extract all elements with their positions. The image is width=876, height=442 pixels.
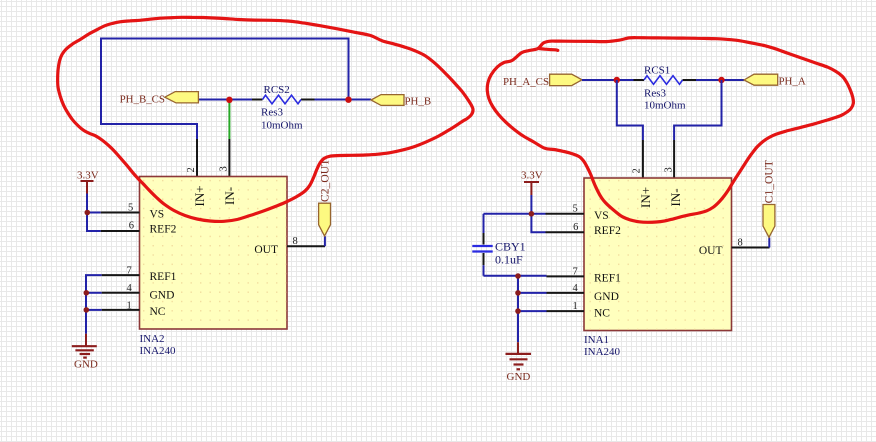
pin 7 (REF1) (547, 267, 585, 278)
wire junction to resistor lead (229, 99, 252, 101)
pin 5 (VS) (101, 202, 140, 213)
svg-text:7: 7 (127, 266, 132, 277)
svg-text:PH_B_CS: PH_B_CS (120, 93, 165, 105)
svg-text:3: 3 (664, 167, 675, 172)
port C2_OUT (318, 159, 331, 236)
annotation red loop left (58, 17, 473, 221)
resistor RCS2 (252, 84, 315, 132)
junction (right sense node) (345, 97, 351, 103)
junction (left sense node) (226, 97, 232, 103)
svg-text:1: 1 (127, 300, 132, 311)
svg-text:IN-: IN- (222, 187, 237, 205)
wire green net segment to IN- (228, 100, 230, 139)
junction gnd rail (515, 290, 521, 296)
junction gnd rail (515, 308, 521, 314)
svg-text:8: 8 (738, 237, 743, 248)
port PH_B_CS (120, 92, 199, 106)
wire right junction to PH_B port (349, 99, 372, 101)
svg-text:5: 5 (128, 202, 133, 213)
pin 5 (VS) (546, 204, 585, 215)
svg-text:3.3V: 3.3V (77, 170, 99, 182)
svg-text:Res3: Res3 (644, 88, 667, 100)
pin 1 (NC) (102, 300, 140, 311)
port C1_OUT (763, 160, 776, 237)
pin 6 (REF2) (546, 222, 585, 233)
svg-text:5: 5 (572, 204, 577, 215)
svg-text:REF1: REF1 (594, 273, 621, 285)
power 3.3V right (521, 170, 543, 195)
svg-text:VS: VS (594, 210, 609, 222)
svg-text:IN-: IN- (668, 188, 683, 206)
junction (right sense node) (718, 77, 724, 83)
pin 8 (OUT) (732, 237, 770, 248)
junction VS rail (529, 211, 535, 217)
port PH_A_CS (503, 74, 582, 88)
wire PH_A_CS to junction (582, 79, 617, 81)
svg-text:7: 7 (572, 267, 577, 278)
wire OUT to port (768, 238, 770, 248)
wire IN- drop (674, 80, 721, 140)
junction VS rail (85, 210, 91, 216)
svg-text:4: 4 (572, 283, 578, 294)
junction gnd rail (84, 290, 90, 296)
ground GND left (72, 334, 98, 371)
svg-text:REF1: REF1 (150, 271, 177, 283)
svg-text:8: 8 (293, 236, 298, 247)
svg-text:NC: NC (150, 306, 166, 318)
pin 1 (NC) (547, 301, 585, 312)
pin 6 (REF2) (101, 221, 140, 232)
svg-text:INA240: INA240 (584, 346, 621, 358)
wire IN+ drop (617, 80, 643, 140)
pin 7 (REF1) (102, 266, 140, 277)
svg-text:INA240: INA240 (140, 345, 177, 357)
svg-text:2: 2 (632, 168, 643, 173)
pin 2 (IN+) (632, 140, 643, 178)
junction gnd rail (515, 273, 521, 279)
svg-text:RCS1: RCS1 (644, 64, 670, 76)
IC INA1 body (584, 178, 732, 331)
svg-text:PH_A: PH_A (779, 76, 806, 88)
svg-text:3.3V: 3.3V (521, 170, 543, 182)
wire 3.3V to VS/REF2 (87, 194, 101, 232)
svg-text:OUT: OUT (254, 244, 278, 256)
port PH_B (371, 95, 431, 108)
junction (left sense node) (614, 77, 620, 83)
svg-text:Res3: Res3 (261, 106, 284, 118)
svg-text:PH_B: PH_B (405, 96, 432, 108)
wire resistor to right junction (696, 79, 722, 81)
svg-text:INA1: INA1 (584, 334, 609, 346)
svg-text:VS: VS (150, 209, 165, 221)
svg-text:NC: NC (594, 307, 610, 319)
wire right junction to PH_A (722, 79, 745, 81)
svg-text:3: 3 (219, 166, 230, 171)
wire gnd rail left (86, 275, 102, 334)
wire OUT to port (324, 236, 326, 246)
svg-text:0.1uF: 0.1uF (495, 252, 523, 266)
svg-text:10mOhm: 10mOhm (644, 99, 686, 111)
svg-text:GND: GND (74, 358, 98, 370)
svg-text:OUT: OUT (699, 245, 723, 257)
svg-text:PH_A_CS: PH_A_CS (503, 76, 549, 88)
svg-text:RCS2: RCS2 (264, 84, 290, 96)
capacitor CBY1 (472, 214, 525, 276)
svg-text:6: 6 (129, 221, 134, 232)
pin 2 (IN+) (186, 139, 197, 177)
wire gnd rail right (484, 275, 547, 277)
svg-text:IN+: IN+ (192, 185, 207, 206)
wire top loop (pin2 to resistor right junction) (101, 39, 349, 140)
power 3.3V (77, 170, 99, 194)
ground GND right (506, 342, 532, 383)
op-amp U? IC INA2 body (140, 177, 288, 330)
svg-text:GND: GND (507, 371, 531, 383)
wire 3.3V rail to VS/REF2 (531, 195, 545, 232)
svg-text:IN+: IN+ (638, 187, 653, 208)
annotation red loop right (487, 38, 853, 223)
pin 4 (GND) (102, 283, 140, 294)
pin 4 (GND) (547, 283, 585, 294)
pin 8 (OUT) (287, 236, 325, 247)
svg-text:GND: GND (594, 291, 619, 303)
port PH_A (744, 74, 806, 87)
svg-text:GND: GND (150, 290, 175, 302)
pin 3 (IN-) (664, 140, 675, 178)
annotation red tail stroke (539, 49, 558, 51)
wire PH_B_CS to junction (198, 99, 229, 101)
pin 3 (IN-) (219, 139, 230, 177)
wire VS row with cap branch (484, 213, 546, 215)
svg-text:C1_OUT: C1_OUT (763, 160, 776, 203)
svg-text:6: 6 (573, 222, 578, 233)
svg-text:1: 1 (572, 301, 577, 312)
svg-text:4: 4 (127, 283, 133, 294)
svg-text:10mOhm: 10mOhm (261, 120, 303, 132)
wire junction to resistor (617, 79, 634, 81)
wire resistor to right junction (315, 99, 349, 101)
svg-text:REF2: REF2 (150, 224, 177, 236)
svg-text:REF2: REF2 (594, 225, 621, 237)
junction gnd rail (84, 307, 90, 313)
resistor RCS1 (634, 64, 697, 111)
svg-text:2: 2 (186, 167, 197, 172)
svg-text:INA2: INA2 (140, 333, 165, 345)
